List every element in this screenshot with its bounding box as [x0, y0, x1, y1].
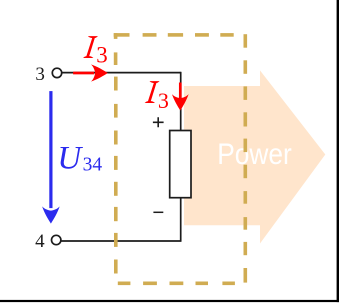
plus polarity mark [153, 117, 164, 127]
current arrow I3 horizontal [73, 64, 108, 81]
svg-text:U: U [57, 140, 83, 176]
voltage arrow U34 [42, 91, 60, 224]
svg-text:4: 4 [35, 231, 45, 252]
svg-text:Power: Power [217, 136, 292, 170]
wire from top corner down to element [180, 72, 182, 131]
resistor (one-port element) [170, 131, 191, 198]
current arrow I3 vertical [172, 83, 189, 111]
svg-text:3: 3 [158, 88, 169, 113]
label I3 top [83, 36, 108, 67]
power flow arrow [184, 70, 325, 243]
frame bottom edge [0, 300, 339, 302]
frame right edge [337, 0, 339, 302]
terminal 3 [52, 68, 61, 77]
wire from terminal 3 to top corner [62, 72, 181, 74]
svg-text:3: 3 [96, 42, 108, 67]
wire from element down to bottom corner [180, 198, 182, 241]
label U34 [57, 140, 102, 176]
terminal 4 [52, 235, 61, 244]
wire from bottom corner to terminal 4 [61, 240, 181, 242]
svg-text:3: 3 [35, 64, 45, 85]
svg-text:34: 34 [83, 155, 103, 176]
dashed boundary box [114, 33, 247, 285]
minus polarity mark [153, 211, 163, 213]
label I3 middle [145, 81, 169, 113]
